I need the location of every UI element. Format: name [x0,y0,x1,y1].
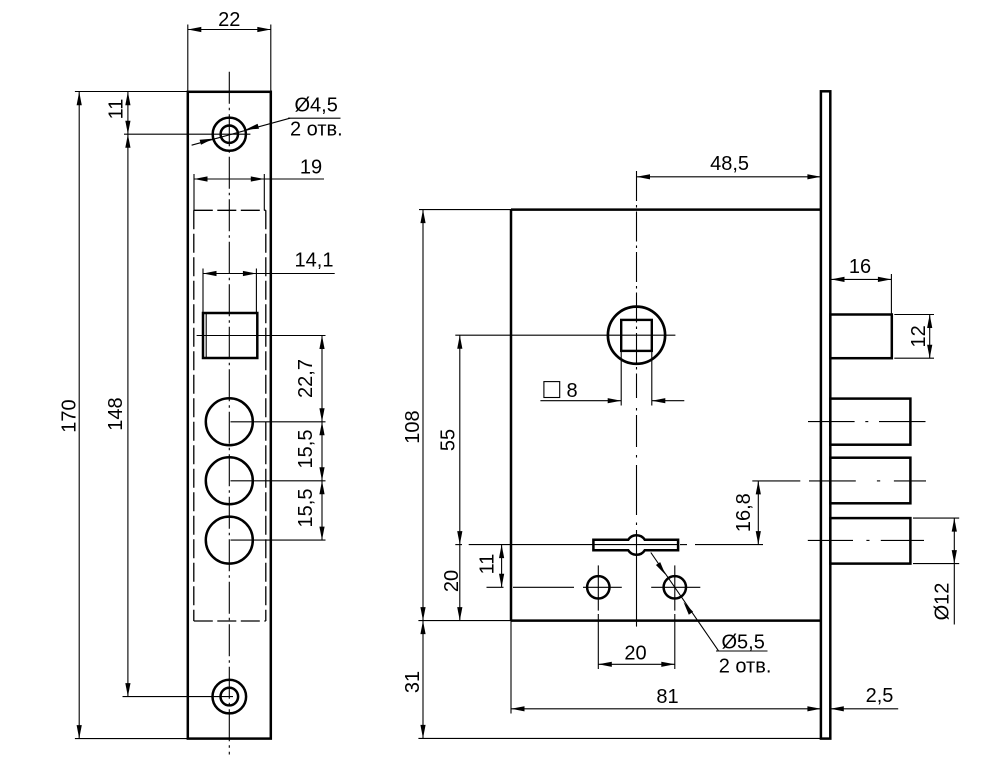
svg-text:55: 55 [438,429,460,451]
svg-text:20: 20 [624,643,646,665]
svg-text:2 отв.: 2 отв. [290,119,343,141]
svg-text:15,5: 15,5 [295,489,317,528]
svg-text:16: 16 [849,256,871,278]
svg-text:108: 108 [402,410,424,443]
svg-text:31: 31 [402,671,424,693]
svg-text:22,7: 22,7 [295,359,317,398]
svg-text:22: 22 [218,9,240,31]
svg-text:Ø12: Ø12 [931,583,953,621]
svg-text:8: 8 [567,380,578,402]
svg-text:81: 81 [656,686,678,708]
svg-text:16,8: 16,8 [733,493,755,532]
svg-text:11: 11 [476,554,498,575]
svg-text:15,5: 15,5 [295,430,317,469]
svg-text:20: 20 [441,570,463,592]
svg-text:Ø4,5: Ø4,5 [295,95,338,117]
svg-text:2 отв.: 2 отв. [719,656,772,678]
svg-text:48,5: 48,5 [710,153,749,175]
svg-text:2,5: 2,5 [866,685,894,707]
svg-text:11: 11 [106,99,128,120]
svg-text:19: 19 [300,157,322,179]
svg-text:148: 148 [105,397,127,430]
svg-text:Ø5,5: Ø5,5 [722,632,765,654]
svg-text:12: 12 [908,325,930,347]
svg-text:170: 170 [59,399,81,432]
svg-text:14,1: 14,1 [295,250,334,272]
